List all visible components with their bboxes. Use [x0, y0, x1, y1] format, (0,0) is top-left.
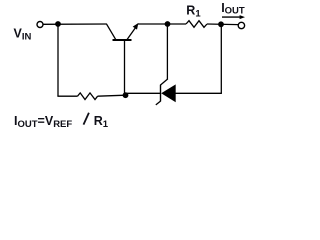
wire (R1 to output node D): [207, 23, 239, 26]
node A junction dot (VIN rail / bias resistor tap): [55, 21, 61, 27]
node D junction dot (output node): [218, 21, 224, 27]
shunt regulator U1 (TL431): [156, 79, 176, 105]
cathode bend top (reference connection): [160, 79, 168, 85]
node C junction dot (emitter / reference tap): [165, 21, 171, 27]
wire top-left (VIN terminal to transistor collector): [43, 23, 107, 25]
base bar: [113, 39, 132, 41]
wire right vertical (node D down to anode rail): [220, 24, 222, 93]
resistor (bias, unlabeled): [78, 93, 98, 100]
wire bottom-right (anode rail, corner to U1 anode): [176, 92, 222, 94]
resistor R1: [186, 21, 207, 28]
wire reference lead vertical (node C down to U1 ref): [166, 24, 168, 79]
emitter lead: [127, 27, 136, 39]
label formula slash: [84, 113, 89, 125]
transistor Q1 (NPN pass transistor): [106, 23, 138, 94]
wire bottom-left (corner to bias resistor): [57, 95, 77, 97]
wire left vertical (node A down to bias resistor): [57, 24, 59, 96]
wire top (emitter to R1): [138, 23, 187, 25]
terminal VIN (input open circle): [37, 22, 43, 28]
terminal IOUT (output open circle): [238, 22, 244, 28]
emitter arrowhead: [133, 23, 139, 30]
base lead down: [124, 41, 126, 94]
node B junction dot (base / cathode node): [123, 92, 129, 98]
cathode bend bottom: [156, 101, 161, 105]
cathode bar: [160, 85, 162, 101]
wire (bias resistor to node B): [98, 95, 126, 96]
anode triangle: [161, 84, 176, 102]
arrow IOUT current direction: [222, 15, 245, 19]
collector lead: [106, 24, 115, 40]
wire (node B to U1 cathode): [126, 92, 161, 94]
